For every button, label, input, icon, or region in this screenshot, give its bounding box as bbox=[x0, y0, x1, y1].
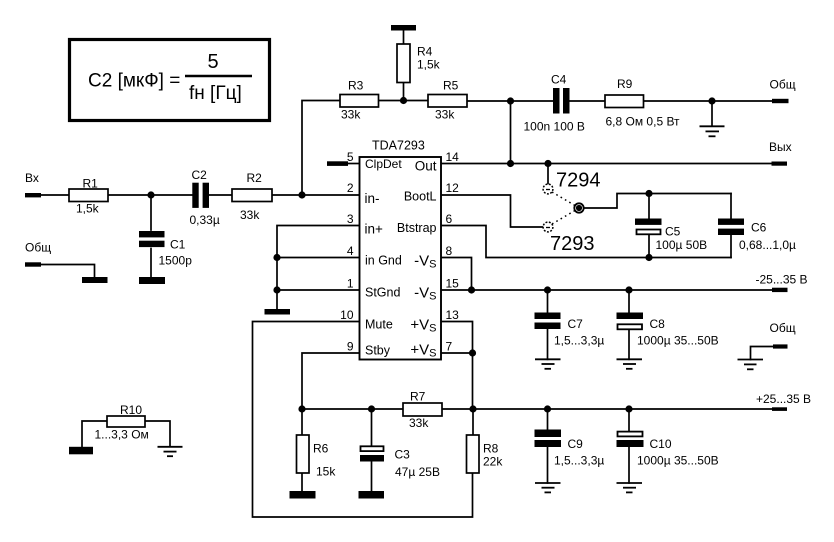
svg-text:R6: R6 bbox=[313, 442, 329, 456]
wire pin 8 -Vs down to -V rail bbox=[441, 258, 472, 291]
svg-text:0,33µ: 0,33µ bbox=[190, 213, 220, 227]
terminal Общ mid right bbox=[773, 344, 788, 348]
ground bar C3 bbox=[359, 491, 385, 499]
svg-text:C5: C5 bbox=[665, 225, 681, 239]
svg-text:ClpDet: ClpDet bbox=[365, 157, 402, 171]
svg-text:StGnd: StGnd bbox=[365, 286, 400, 300]
wire C9 bottom lead to earth bbox=[547, 447, 549, 483]
resistor R4 bbox=[397, 44, 410, 83]
svg-text:33k: 33k bbox=[341, 108, 361, 122]
junction Out line node F bbox=[507, 160, 514, 167]
svg-text:C6: C6 bbox=[751, 221, 767, 235]
svg-text:R10: R10 bbox=[120, 403, 142, 417]
resistor R2 bbox=[232, 189, 272, 202]
svg-text:Общ: Общ bbox=[770, 78, 796, 92]
svg-text:7293: 7293 bbox=[550, 233, 595, 255]
terminal Вых bbox=[772, 162, 788, 166]
resistor R7 bbox=[403, 403, 442, 416]
junction C10 on +V rail bbox=[625, 405, 632, 412]
junction pin7 vertical bbox=[469, 349, 476, 356]
svg-text:5: 5 bbox=[207, 51, 218, 73]
wire C2 to R2 bbox=[209, 194, 232, 196]
svg-text:1000µ 35...50В: 1000µ 35...50В bbox=[637, 454, 719, 468]
capacitor C2 plate right bbox=[203, 183, 209, 208]
svg-text:6: 6 bbox=[446, 212, 453, 226]
wire C8 top lead bbox=[628, 290, 630, 313]
svg-text:1,5...3,3µ: 1,5...3,3µ bbox=[554, 454, 604, 468]
svg-text:C2 [мкФ] =: C2 [мкФ] = bbox=[88, 71, 180, 92]
wire +V rail +25..35V bbox=[473, 408, 773, 410]
wire C7 top lead bbox=[547, 290, 549, 313]
switch pole bbox=[574, 203, 583, 212]
earth ground C9 bbox=[535, 483, 561, 492]
wire R7 to node H bbox=[442, 408, 473, 410]
junction C5 bottom bbox=[645, 254, 652, 261]
capacitor C6 plate top bbox=[718, 219, 744, 225]
wire R10 right lead bbox=[145, 421, 170, 447]
capacitor C4 plate right bbox=[563, 88, 570, 114]
capacitor C10 plate top polarized outline bbox=[618, 432, 643, 437]
capacitor C3 plate bottom bbox=[360, 455, 384, 462]
switch dotted link 7294 to pole bbox=[552, 192, 575, 206]
switch contact 7294 bbox=[543, 184, 553, 194]
capacitor C1 plate bottom bbox=[139, 241, 165, 247]
svg-text:1000µ 35...50В: 1000µ 35...50В bbox=[637, 334, 719, 348]
wire pin 6 Btstrap to C5 C6 bottom line bbox=[441, 226, 731, 258]
wire node A down to C1 bbox=[150, 195, 152, 230]
junction C8 on -V rail bbox=[625, 286, 632, 293]
wire C4 to R9 bbox=[570, 100, 606, 102]
wire R4 terminal bar to R4 bbox=[403, 31, 405, 45]
terminal pin 5 ClpDet bbox=[327, 161, 348, 166]
wire node H to R8 bbox=[472, 409, 474, 435]
svg-text:in-: in- bbox=[365, 191, 380, 206]
node E junction C3 bbox=[368, 405, 375, 412]
svg-text:C4: C4 bbox=[551, 73, 567, 87]
wire node F down to Out line bbox=[510, 101, 512, 164]
wire Вх terminal to R1 bbox=[41, 194, 69, 196]
wire C10 bottom lead to earth bbox=[628, 447, 630, 483]
wire pin 13 +Vs down to node H bbox=[441, 322, 473, 410]
node A junction R1 C1 C2 bbox=[147, 191, 154, 198]
formula box bbox=[70, 40, 270, 121]
svg-text:4: 4 bbox=[347, 244, 354, 258]
wire R10 left lead bbox=[82, 421, 107, 447]
svg-text:Вых: Вых bbox=[769, 140, 792, 154]
svg-text:in+: in+ bbox=[365, 222, 384, 237]
svg-text:R9: R9 bbox=[617, 77, 633, 91]
wire R2 to pin 2 in- bbox=[272, 194, 360, 196]
svg-text:8: 8 bbox=[446, 244, 453, 258]
capacitor C2 plate left bbox=[192, 183, 198, 208]
resistor R10 bbox=[107, 416, 145, 427]
junction pin8 on -V rail bbox=[468, 286, 475, 293]
capacitor C10 plate bottom bbox=[617, 440, 644, 447]
wire node G down to earth bbox=[711, 101, 713, 126]
wire Общ mid terminal to earth bbox=[751, 347, 774, 360]
wire C1 to ground bbox=[150, 249, 152, 279]
wire R3 to R4 node to R5 bbox=[379, 100, 429, 102]
switch contact 7293 bbox=[543, 222, 553, 232]
capacitor C8 plate top bbox=[617, 313, 644, 320]
wire pin 7 +Vs to vertical bbox=[441, 352, 473, 354]
capacitor C4 plate left bbox=[553, 88, 560, 114]
wire R5 to node F bbox=[467, 100, 511, 102]
svg-text:13: 13 bbox=[446, 308, 460, 322]
wire switch pole to C5 C6 top line bbox=[584, 194, 732, 209]
wire pin 15 -Vs rail -25..35V bbox=[441, 289, 772, 291]
capacitor C7 plate bottom bbox=[535, 323, 561, 330]
svg-text:15k: 15k bbox=[316, 465, 336, 479]
resistor R5 bbox=[428, 95, 467, 108]
svg-text:15: 15 bbox=[446, 277, 460, 291]
wire C6 top lead bbox=[730, 194, 732, 219]
svg-text:1: 1 bbox=[347, 277, 354, 291]
svg-text:Mute: Mute bbox=[365, 318, 393, 332]
svg-text:R2: R2 bbox=[247, 171, 263, 185]
terminal R4 top bbox=[391, 25, 416, 31]
svg-text:3: 3 bbox=[347, 212, 354, 226]
wire node D to R6 bbox=[301, 409, 303, 435]
node F junction R5 C4 bbox=[507, 97, 514, 104]
wire Общ left terminal to ground bbox=[41, 265, 95, 279]
svg-text:R7: R7 bbox=[410, 390, 426, 404]
svg-text:C8: C8 bbox=[650, 317, 666, 331]
svg-text:100n 100 В: 100n 100 В bbox=[524, 120, 585, 134]
capacitor C7 plate top bbox=[535, 313, 561, 320]
svg-text:7294: 7294 bbox=[556, 170, 601, 192]
terminal Вх bbox=[25, 193, 41, 197]
terminal +25...35 В bbox=[772, 407, 787, 411]
svg-text:1,5...3,3µ: 1,5...3,3µ bbox=[554, 334, 604, 348]
wire Out node down to switch contact 7294 bbox=[547, 164, 549, 185]
terminal Общ left bbox=[25, 262, 41, 266]
resistor R1 bbox=[69, 189, 108, 202]
wire C5 top lead bbox=[648, 194, 650, 219]
junction pin1 rail bbox=[273, 286, 280, 293]
svg-text:1,5k: 1,5k bbox=[417, 58, 441, 72]
svg-text:10: 10 bbox=[340, 308, 354, 322]
capacitor C5 plate top bbox=[635, 219, 662, 225]
wire pin 5 terminal to IC bbox=[348, 163, 360, 165]
earth ground C7 bbox=[535, 359, 561, 369]
svg-text:5: 5 bbox=[347, 150, 354, 164]
ground bar R10 left bbox=[69, 447, 93, 455]
node C junction R3 R4 R5 bbox=[400, 97, 407, 104]
wire node D to R7 bbox=[302, 408, 403, 410]
capacitor C9 plate top bbox=[535, 430, 562, 438]
earth ground R10 right bbox=[158, 447, 183, 456]
wire node G to Общ terminal bbox=[712, 100, 773, 102]
svg-text:7: 7 bbox=[446, 340, 453, 354]
wire C6 bottom lead bbox=[730, 235, 732, 258]
earth ground C8 bbox=[617, 359, 643, 369]
junction C9 on +V rail bbox=[544, 405, 551, 412]
svg-text:Вх: Вх bbox=[25, 171, 39, 185]
svg-text:in Gnd: in Gnd bbox=[365, 254, 402, 268]
svg-text:Общ: Общ bbox=[770, 321, 796, 335]
resistor R8 bbox=[467, 435, 480, 473]
svg-text:9: 9 bbox=[347, 340, 354, 354]
svg-text:33k: 33k bbox=[435, 108, 455, 122]
junction C5 top bbox=[645, 190, 652, 197]
node G junction R9 earth bbox=[708, 97, 715, 104]
wire pin 4 in Gnd bbox=[277, 257, 360, 259]
wire C9 top lead bbox=[547, 409, 549, 430]
svg-text:1500p: 1500p bbox=[159, 254, 193, 268]
capacitor C6 plate bottom bbox=[718, 229, 744, 235]
resistor R3 bbox=[340, 95, 379, 108]
svg-text:-25...35 В: -25...35 В bbox=[756, 273, 808, 287]
svg-text:Btstrap: Btstrap bbox=[397, 221, 437, 235]
svg-text:14: 14 bbox=[446, 150, 460, 164]
svg-text:R4: R4 bbox=[417, 45, 433, 59]
terminal Общ top right bbox=[772, 99, 789, 103]
svg-text:2: 2 bbox=[347, 181, 354, 195]
svg-text:22k: 22k bbox=[483, 455, 503, 469]
earth ground at node G top right bbox=[700, 126, 725, 136]
node B junction R2 R3 pin2 bbox=[298, 191, 305, 198]
capacitor C9 plate bottom bbox=[535, 440, 562, 447]
earth ground Общ mid right bbox=[738, 360, 764, 370]
terminal -25...35 В bbox=[772, 288, 788, 292]
svg-text:C10: C10 bbox=[650, 437, 672, 451]
svg-text:R1: R1 bbox=[83, 177, 99, 191]
svg-text:Stby: Stby bbox=[365, 344, 391, 358]
svg-text:100µ 50В: 100µ 50В bbox=[656, 238, 708, 252]
resistor R6 bbox=[297, 435, 310, 473]
wire node F to C4 bbox=[511, 100, 554, 102]
wire C5 bottom lead bbox=[648, 235, 650, 258]
svg-text:R3: R3 bbox=[348, 79, 364, 93]
ground bar C1 bbox=[139, 277, 165, 284]
wire C7 bottom lead to earth bbox=[547, 329, 549, 359]
svg-text:fн [Гц]: fн [Гц] bbox=[189, 83, 242, 104]
node H junction R7 R8 +V bbox=[469, 405, 476, 412]
wire R1 to node A bbox=[108, 194, 151, 196]
svg-text:C1: C1 bbox=[170, 238, 186, 252]
svg-text:C9: C9 bbox=[568, 437, 584, 451]
wire C8 bottom lead to earth bbox=[628, 330, 630, 359]
wire node A to C2 bbox=[151, 194, 192, 196]
svg-text:BootL: BootL bbox=[404, 190, 437, 204]
wire pin 12 BootL to switch contact 7293 bbox=[441, 195, 543, 227]
wire C10 top lead bbox=[628, 409, 630, 432]
op-amp U1 TDA7293 body bbox=[360, 157, 442, 360]
svg-text:12: 12 bbox=[446, 181, 460, 195]
capacitor C5 plate bottom polarized outline bbox=[637, 230, 661, 235]
svg-text:33k: 33k bbox=[409, 416, 429, 430]
wire R3 left down to node B bbox=[302, 101, 340, 196]
switch dotted link 7293 to pole bbox=[552, 211, 575, 225]
ground bar StGnd rail bbox=[265, 309, 291, 315]
junction pin4 rail bbox=[273, 254, 280, 261]
svg-text:1...3,3 Ом: 1...3,3 Ом bbox=[95, 428, 149, 442]
wire R9 to node G bbox=[644, 100, 713, 102]
wire R6 to ground bbox=[301, 473, 303, 492]
svg-text:47µ 25В: 47µ 25В bbox=[395, 465, 440, 479]
svg-text:1,5k: 1,5k bbox=[76, 202, 100, 216]
formula fraction bar bbox=[185, 75, 252, 77]
svg-text:+25...35 В: +25...35 В bbox=[756, 392, 811, 406]
earth ground C10 bbox=[617, 483, 643, 492]
capacitor C1 plate top bbox=[139, 231, 165, 237]
node D junction R6 Stby R7 bbox=[298, 405, 305, 412]
svg-text:C3: C3 bbox=[395, 448, 411, 462]
ground bar Общ left bbox=[82, 277, 108, 283]
svg-text:6,8 Ом 0,5 Вт: 6,8 Ом 0,5 Вт bbox=[606, 115, 681, 129]
svg-text:R8: R8 bbox=[483, 442, 499, 456]
wire pin 10 Mute loop to R8 bottom bbox=[253, 322, 473, 518]
svg-text:C7: C7 bbox=[568, 317, 584, 331]
resistor R9 bbox=[605, 95, 644, 108]
junction Out line switch bbox=[544, 160, 551, 167]
wire R4 to node C bbox=[403, 83, 405, 101]
wire node E down to C3 bbox=[371, 409, 373, 446]
svg-text:Общ: Общ bbox=[25, 241, 51, 255]
wire pin 1 StGnd bbox=[277, 289, 360, 291]
wire pin 3 in+ to ground rail bbox=[277, 226, 360, 310]
svg-text:TDA7293: TDA7293 bbox=[372, 139, 425, 153]
capacitor C8 plate bottom polarized outline bbox=[618, 324, 643, 329]
wire pin 14 Out to Вых terminal bbox=[441, 163, 772, 165]
wire pin 9 Stby down to node D bbox=[302, 353, 360, 409]
svg-text:C2: C2 bbox=[192, 168, 208, 182]
svg-text:R5: R5 bbox=[443, 79, 459, 93]
svg-text:33k: 33k bbox=[240, 208, 260, 222]
svg-text:Out: Out bbox=[415, 159, 437, 174]
svg-text:0,68...1,0µ: 0,68...1,0µ bbox=[739, 238, 796, 252]
capacitor C3 plate top polarized outline bbox=[361, 446, 384, 451]
wire C3 to ground bbox=[371, 462, 373, 493]
ground bar R6 bbox=[290, 491, 316, 499]
junction C7 on -V rail bbox=[544, 286, 551, 293]
